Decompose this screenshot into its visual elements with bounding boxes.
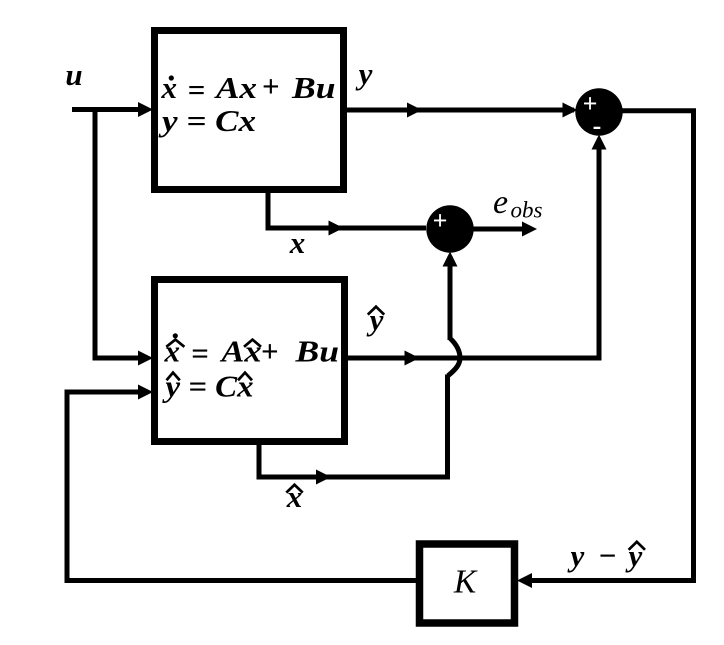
wire y output of plant to sum1 — [347, 108, 574, 113]
svg-text:obs: obs — [511, 198, 543, 223]
svg-text:=: = — [191, 336, 209, 371]
svg-text:Bu: Bu — [291, 70, 336, 105]
wire vertical below hop down to xhat line — [445, 375, 450, 478]
block K (observer gain) — [420, 544, 515, 623]
arrowhead e_obs — [522, 222, 537, 237]
svg-text:y = Cx: y = Cx — [157, 103, 256, 138]
arrowhead mid y wire — [407, 103, 422, 118]
svg-text:Ax: Ax — [214, 70, 257, 105]
wire sum1 output right, down, left into K — [522, 111, 694, 581]
arrowhead mid yhat wire — [405, 351, 420, 366]
arrowhead mid xhat wire — [316, 470, 331, 485]
label e_obs — [493, 184, 543, 223]
wire xhat output of observer down and right — [259, 441, 450, 477]
observer equation line 2: yhat = Cxhat — [161, 369, 253, 404]
arrowhead u into plant — [138, 102, 153, 117]
block plant (xdot = Ax + Bu ; y = Cx) — [155, 31, 344, 190]
svg-text:+: + — [433, 206, 448, 235]
arrowhead y into sum1 — [563, 103, 578, 118]
plant equation line 1: xdot = Ax + Bu — [161, 69, 336, 108]
wire e_obs output of sum2 — [472, 227, 524, 232]
wire hop arc over yhat line — [448, 339, 460, 376]
svg-text:-: - — [593, 111, 602, 140]
block observer (xhatdot = Axhat + Bu ; yhat = Cxhat) — [155, 280, 345, 442]
wire u input into plant — [72, 107, 140, 112]
svg-text:x: x — [289, 225, 306, 260]
svg-text:=: = — [188, 72, 206, 107]
arrowhead into K — [517, 573, 532, 588]
wire yhat vertical up into sum1 — [597, 140, 602, 360]
arrowhead yhat into sum1 bottom — [592, 135, 607, 150]
svg-text:Bu: Bu — [294, 334, 339, 369]
summing junction sum2 (x vs xhat, e_obs) — [426, 205, 473, 252]
svg-text:K: K — [453, 564, 478, 601]
svg-text:Ax: Ax — [219, 334, 261, 369]
wire K output left, up, right into observer input 2 — [67, 392, 419, 581]
arrowhead into sum2 bottom — [443, 252, 458, 267]
svg-text:−: − — [598, 538, 617, 573]
svg-text:u: u — [65, 57, 82, 92]
observer equation line 1: xhatdot = Axhat + Bu — [164, 333, 340, 370]
wire vertical into sum2 from below (above hop) — [448, 256, 453, 340]
svg-text:x: x — [161, 70, 178, 105]
wire yhat horizontal output of observer — [348, 356, 602, 361]
svg-text:x: x — [164, 334, 181, 369]
arrowhead u into observer — [138, 351, 153, 366]
svg-text:+: + — [262, 69, 280, 104]
wire x output of plant down and right to sum2 — [268, 189, 426, 228]
arrowhead feedback into observer — [138, 385, 153, 400]
label yhat — [366, 302, 385, 337]
wire u branch down to observer input 1 — [95, 107, 140, 358]
label y - yhat — [567, 538, 646, 573]
svg-text:e: e — [493, 184, 508, 221]
label xhat — [286, 479, 303, 514]
svg-text:+: + — [261, 334, 279, 369]
summing junction sum1 (y - yhat) — [575, 88, 622, 140]
arrowhead mid x wire — [329, 221, 344, 236]
